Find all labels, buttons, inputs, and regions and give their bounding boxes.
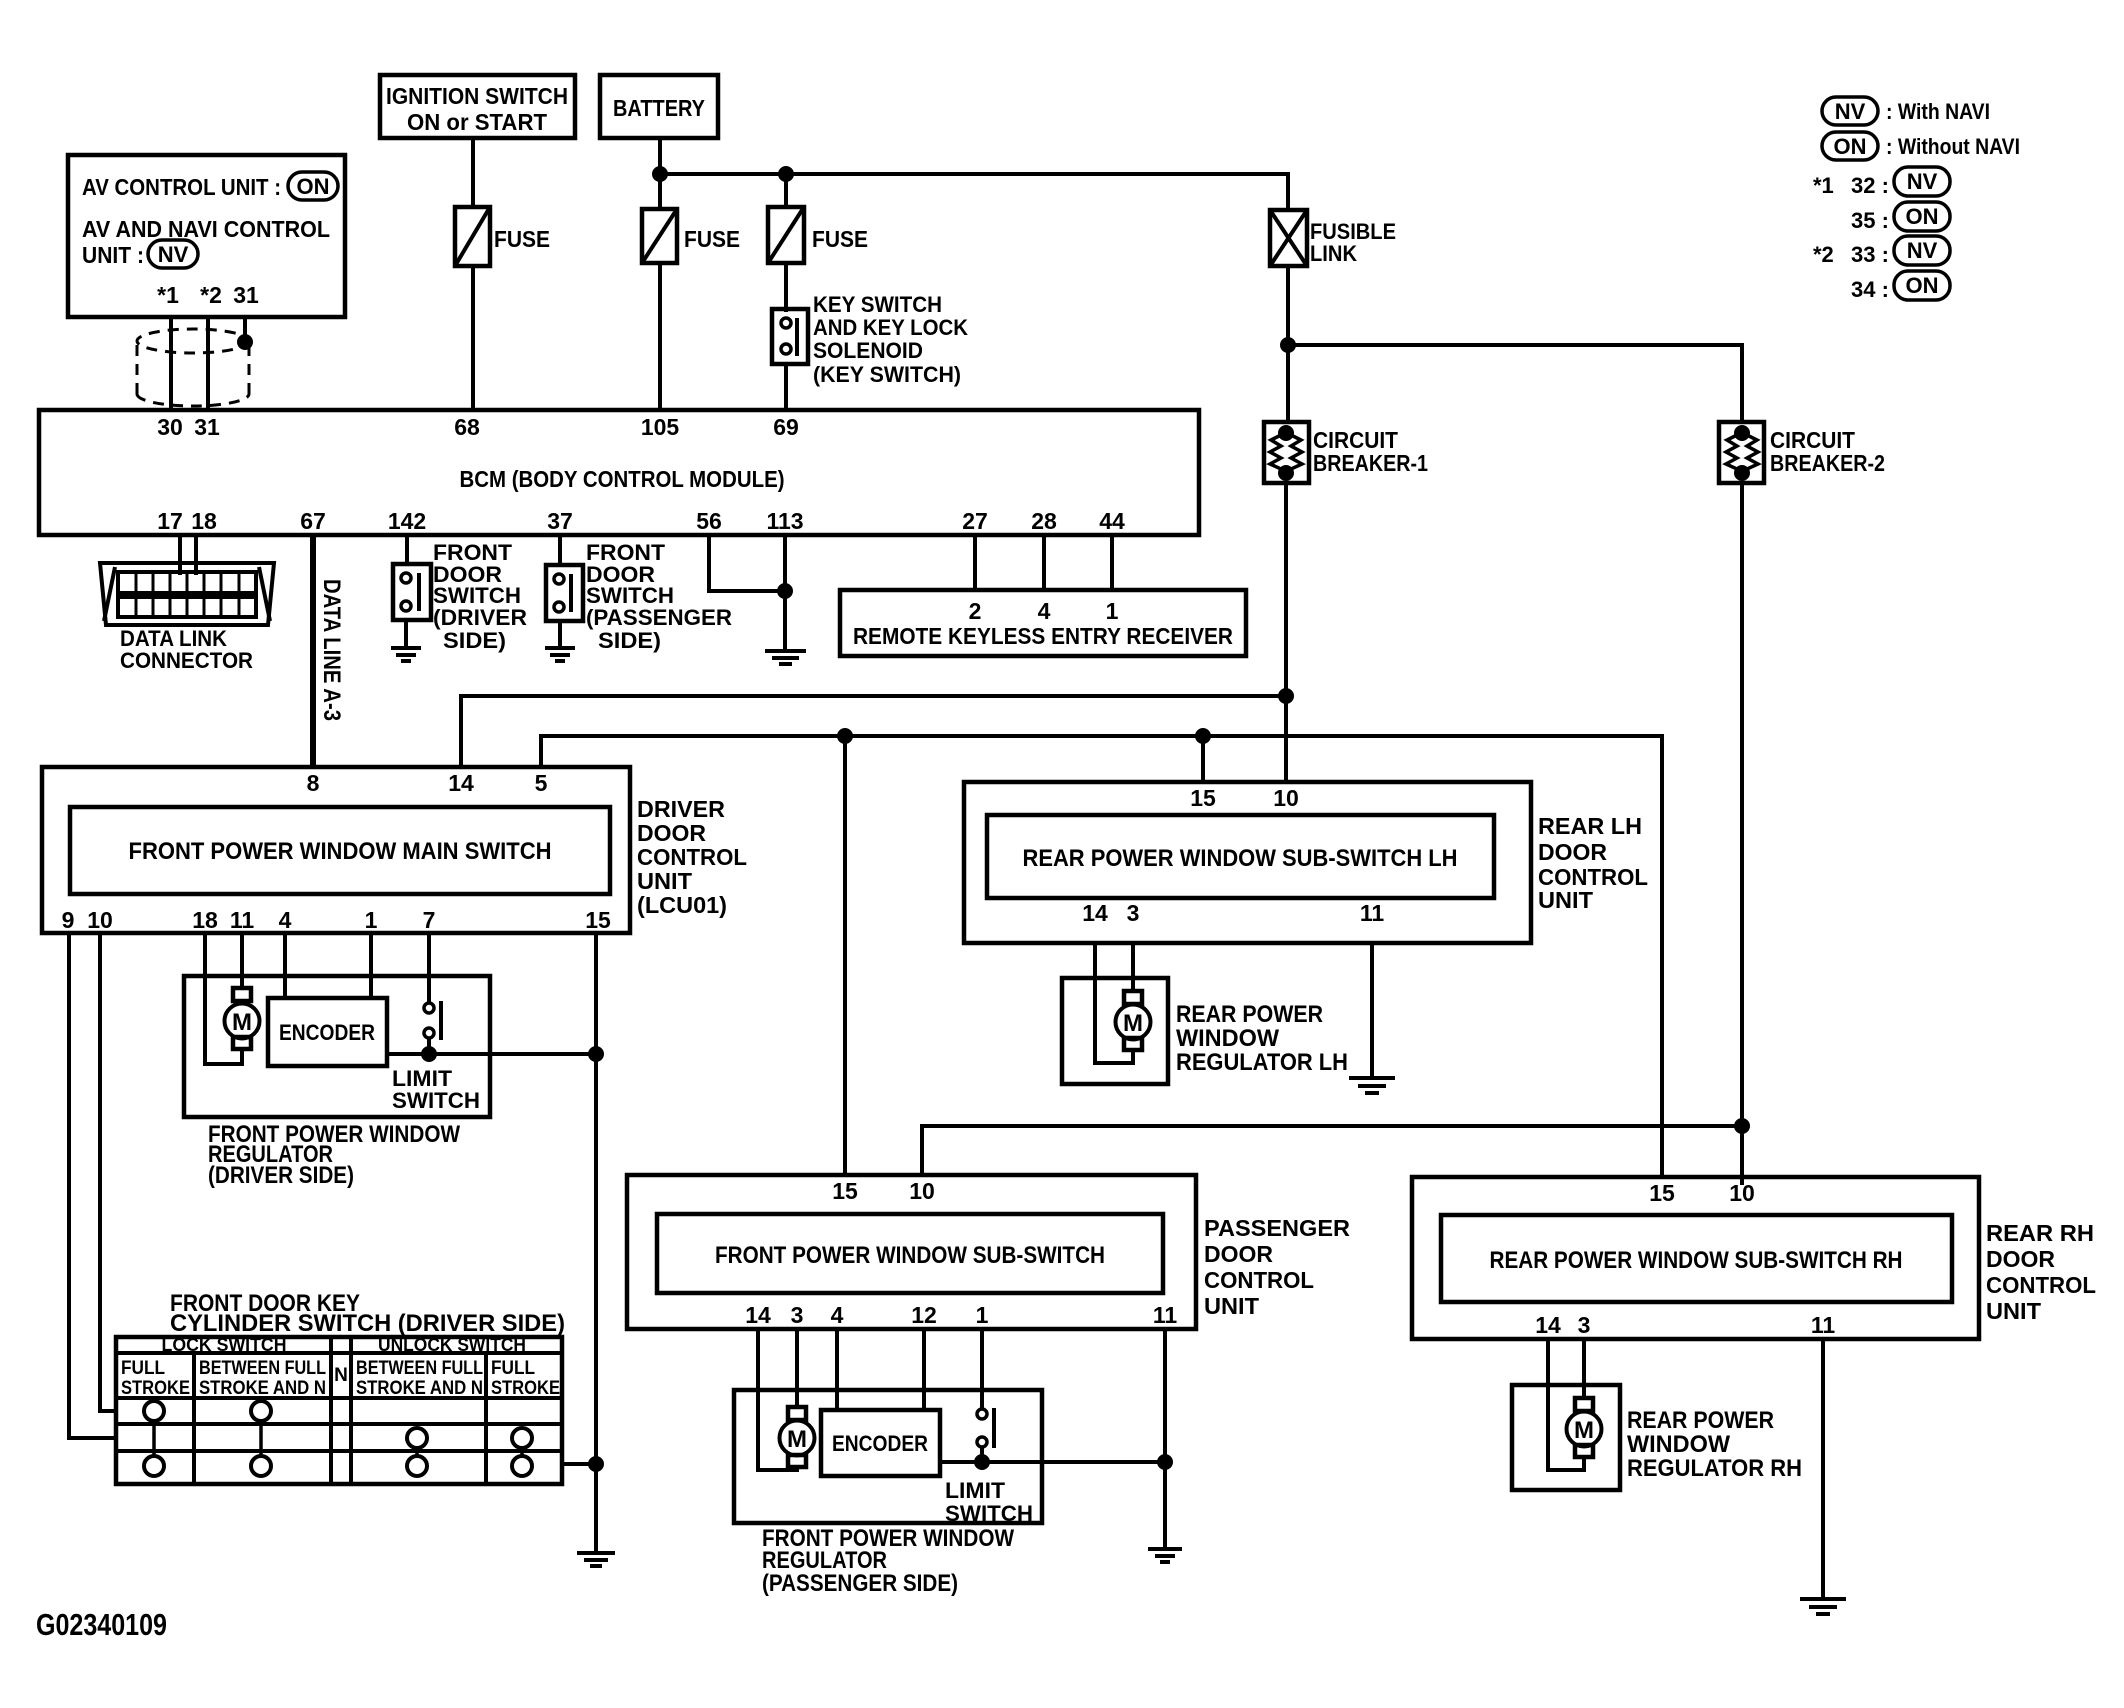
wire ignition to fuse: [471, 138, 475, 207]
svg-text:BETWEEN FULL: BETWEEN FULL: [199, 1358, 326, 1379]
node bus1/CB-1 junction: [1278, 688, 1294, 704]
node limit switch junction: [421, 1046, 437, 1062]
wire to fuse3: [784, 174, 788, 207]
legend 34 ON: [1851, 271, 1950, 302]
wire data line A-3 (BCM 67 to pin 8, thick): [310, 535, 316, 767]
wire AV 31 to shield: [243, 317, 247, 342]
svg-text:(PASSENGER SIDE): (PASSENGER SIDE): [762, 1570, 958, 1597]
wire bus line 3 (passenger 10 to CB-2): [922, 1126, 1742, 1175]
svg-text:BATTERY: BATTERY: [613, 95, 705, 121]
battery box: [600, 75, 718, 138]
wire BCM 44 to receiver pin 1: [1110, 535, 1114, 590]
svg-text:DRIVER: DRIVER: [637, 796, 725, 822]
svg-text:*2: *2: [1813, 242, 1834, 267]
svg-text:ON: ON: [297, 174, 330, 199]
svg-text:AV CONTROL UNIT :: AV CONTROL UNIT :: [82, 174, 281, 200]
ground under passenger door switch: [545, 621, 575, 661]
wire rear LH 14 to motor low side: [1095, 943, 1133, 1063]
data link connector: [100, 563, 274, 673]
svg-text:STROKE: STROKE: [121, 1378, 190, 1399]
svg-text:8: 8: [307, 770, 320, 796]
node on driver 15 line: [588, 1046, 604, 1062]
wire to CB-2: [1288, 345, 1742, 422]
svg-text:31: 31: [194, 414, 220, 440]
wire fuse3 to key switch: [784, 263, 788, 312]
node below fusible link: [1280, 337, 1296, 353]
table contact links: [154, 1421, 522, 1456]
svg-text:FRONT POWER WINDOW MAIN SWITCH: FRONT POWER WINDOW MAIN SWITCH: [129, 838, 552, 865]
svg-text:NV: NV: [1907, 169, 1938, 194]
svg-text:69: 69: [773, 414, 799, 440]
node bus2 rear LH feed: [1195, 728, 1211, 744]
svg-text:FRONT POWER WINDOW SUB-SWITCH: FRONT POWER WINDOW SUB-SWITCH: [715, 1242, 1105, 1269]
wire fuse1 to BCM pin 68: [471, 266, 475, 410]
rear LH door control unit: [964, 782, 1648, 943]
svg-text:105: 105: [641, 414, 680, 440]
fuse F2 (battery): [642, 209, 740, 263]
svg-text:REGULATOR LH: REGULATOR LH: [1176, 1049, 1348, 1076]
wire bus line 2 (driver 5 to rear switches 15): [541, 736, 1662, 1177]
svg-text:(KEY SWITCH): (KEY SWITCH): [813, 362, 961, 387]
fuse F3 (key switch): [768, 207, 868, 263]
wire table to driver 15 line: [562, 1462, 596, 1466]
AV control unit box: [68, 155, 345, 317]
svg-text:14: 14: [745, 1302, 771, 1328]
svg-text:ON: ON: [1906, 204, 1939, 229]
svg-text:FUSE: FUSE: [812, 226, 868, 252]
wire battery down: [658, 138, 662, 209]
svg-text:NV: NV: [158, 242, 189, 267]
svg-text:LINK: LINK: [1310, 241, 1357, 266]
svg-text:3: 3: [1578, 1312, 1591, 1338]
svg-text:NV: NV: [1907, 238, 1938, 263]
svg-text:REAR POWER: REAR POWER: [1176, 1001, 1323, 1028]
svg-text:*2: *2: [200, 282, 222, 308]
svg-text:CYLINDER SWITCH (DRIVER SIDE): CYLINDER SWITCH (DRIVER SIDE): [170, 1310, 565, 1337]
svg-text:1: 1: [365, 907, 378, 933]
motor M (passenger regulator): [780, 1407, 815, 1467]
wire CB-1 down to rear LH pin 10: [1284, 483, 1288, 782]
fusible link: [1270, 210, 1396, 266]
wire driver 7 to limit switch: [427, 933, 431, 1003]
svg-text:M: M: [1123, 1010, 1143, 1037]
svg-text:7: 7: [423, 907, 436, 933]
svg-text:3: 3: [791, 1302, 804, 1328]
svg-text:CONNECTOR: CONNECTOR: [120, 648, 253, 673]
wire BCM 27 to receiver pin 2: [973, 535, 977, 590]
wire BCM 37 to passenger door switch: [558, 535, 562, 565]
svg-text:1: 1: [976, 1302, 989, 1328]
passenger door control unit: [627, 1175, 1350, 1329]
svg-text:113: 113: [766, 508, 803, 534]
svg-text:: Without NAVI: : Without NAVI: [1886, 134, 2020, 159]
svg-text:FUSE: FUSE: [684, 226, 740, 252]
svg-text:28: 28: [1031, 508, 1057, 534]
wire CB-2 down to rear RH pin 10: [1740, 483, 1744, 1185]
table contacts row 1: [144, 1401, 271, 1421]
node bus3/CB-2 junction: [1734, 1118, 1750, 1134]
svg-text:DOOR: DOOR: [1204, 1241, 1273, 1267]
driver door control unit (LCU01): [42, 767, 747, 933]
svg-text:1: 1: [1106, 598, 1119, 624]
svg-text:68: 68: [454, 414, 480, 440]
svg-text:M: M: [1574, 1417, 1594, 1444]
wire BCM 18 to DLC: [194, 535, 198, 575]
rear power window regulator RH: [1512, 1385, 1620, 1490]
wire passenger 3 to motor: [795, 1329, 799, 1407]
wire encoder/limit to passenger 11 line: [940, 1460, 1165, 1464]
rear RH door control unit: [1412, 1177, 2096, 1339]
svg-text:CONTROL: CONTROL: [1986, 1272, 2096, 1298]
svg-text:DOOR: DOOR: [1986, 1246, 2055, 1272]
svg-text:AND KEY LOCK: AND KEY LOCK: [813, 315, 968, 340]
ground driver main: [577, 1553, 615, 1566]
wire rear LH 11 to ground: [1370, 943, 1374, 1078]
svg-text:M: M: [232, 1009, 252, 1036]
svg-text:REGULATOR RH: REGULATOR RH: [1627, 1455, 1802, 1482]
svg-text:10: 10: [1273, 785, 1299, 811]
wire BCM 17 to DLC: [178, 535, 182, 575]
wire passenger 4 to encoder: [835, 1329, 839, 1410]
svg-text:FUSE: FUSE: [494, 226, 550, 252]
wire battery bus to fusible link: [660, 174, 1288, 210]
wire driver 15 to ground: [594, 933, 598, 1553]
BCM (body control module): [39, 410, 1199, 535]
svg-text:14: 14: [1082, 900, 1108, 926]
wire fuse2 to BCM pin 105: [658, 263, 662, 410]
wire to passenger pin 15: [843, 736, 847, 1175]
label rear power window regulator RH: [1627, 1407, 1802, 1482]
circuit breaker CB-1: [1264, 422, 1428, 483]
svg-text:34 :: 34 :: [1851, 277, 1889, 302]
svg-text:REAR RH: REAR RH: [1986, 1220, 2094, 1246]
wire BCM 142 to driver door switch: [405, 535, 409, 564]
node shield junction: [237, 334, 253, 350]
wire key switch to BCM pin 69: [784, 364, 788, 410]
wire driver 9 to lock table row2: [69, 933, 116, 1438]
svg-text:DOOR: DOOR: [1538, 839, 1607, 865]
legend *1 32 NV: [1813, 167, 1950, 198]
limit switch (passenger regulator): [945, 1408, 1033, 1526]
front door switch (passenger side): [546, 540, 732, 653]
svg-text:ENCODER: ENCODER: [279, 1020, 375, 1045]
svg-text:WINDOW: WINDOW: [1627, 1431, 1730, 1458]
svg-text:35 :: 35 :: [1851, 208, 1889, 233]
ground under BCM 113: [765, 651, 806, 664]
node on driver 15 line at table: [588, 1456, 604, 1472]
svg-text:G02340109: G02340109: [36, 1607, 167, 1642]
svg-text:UNIT: UNIT: [1204, 1293, 1259, 1319]
motor M (rear RH regulator): [1567, 1398, 1602, 1457]
svg-text:UNIT :: UNIT :: [82, 242, 144, 268]
svg-text:STROKE: STROKE: [491, 1378, 560, 1399]
svg-text:BCM (BODY CONTROL MODULE): BCM (BODY CONTROL MODULE): [460, 466, 785, 492]
svg-text:11: 11: [230, 907, 255, 933]
svg-text:15: 15: [832, 1178, 858, 1204]
svg-text:FULL: FULL: [491, 1358, 535, 1379]
svg-text:3: 3: [1127, 900, 1140, 926]
wire rear LH 3 to motor: [1131, 943, 1135, 991]
svg-text:ON or START: ON or START: [407, 109, 547, 135]
wire AV *2 to BCM pin 31: [206, 317, 210, 410]
svg-text:BREAKER-2: BREAKER-2: [1770, 450, 1885, 476]
legend *2 33 NV: [1813, 236, 1950, 267]
node bus2 passenger feed: [837, 728, 853, 744]
svg-text:UNIT: UNIT: [637, 868, 692, 894]
wire driver 11 to motor: [240, 933, 244, 989]
svg-text:UNLOCK SWITCH: UNLOCK SWITCH: [378, 1335, 526, 1355]
svg-text:SIDE): SIDE): [443, 628, 506, 653]
motor M (rear LH regulator): [1116, 991, 1151, 1050]
svg-text:UNIT: UNIT: [1986, 1298, 2041, 1324]
key switch and key lock solenoid: [772, 292, 968, 387]
svg-text:12: 12: [911, 1302, 937, 1328]
svg-text:30: 30: [157, 414, 183, 440]
wire to rear LH pin 15: [1201, 736, 1205, 782]
svg-text:: With NAVI: : With NAVI: [1886, 99, 1990, 124]
node 56/113 junction: [777, 583, 793, 599]
front power window regulator (driver side): [184, 976, 490, 1117]
svg-text:KEY SWITCH: KEY SWITCH: [813, 292, 942, 317]
svg-text:NV: NV: [1835, 99, 1866, 124]
svg-text:10: 10: [87, 907, 113, 933]
shield drum (dashed): [137, 329, 249, 406]
svg-text:9: 9: [62, 907, 75, 933]
svg-text:REAR POWER WINDOW SUB-SWITCH L: REAR POWER WINDOW SUB-SWITCH LH: [1023, 845, 1458, 872]
circuit breaker CB-2: [1719, 422, 1885, 483]
svg-text:(DRIVER SIDE): (DRIVER SIDE): [208, 1162, 354, 1189]
wire bus line 1 (driver 14 to CB-1): [461, 696, 1286, 767]
wire driver 4 to encoder: [283, 933, 287, 998]
svg-text:STROKE AND N: STROKE AND N: [199, 1378, 326, 1399]
wire driver 1 to encoder: [369, 933, 373, 998]
encoder (passenger regulator): [821, 1410, 940, 1476]
svg-text:REAR POWER: REAR POWER: [1627, 1407, 1774, 1434]
svg-text:11: 11: [1811, 1312, 1836, 1338]
svg-text:11: 11: [1153, 1302, 1178, 1328]
front power window regulator (passenger side): [734, 1390, 1042, 1523]
front door switch (driver side): [393, 540, 527, 653]
svg-text:10: 10: [909, 1178, 935, 1204]
table contacts row 3: [144, 1456, 532, 1476]
svg-text:4: 4: [831, 1302, 844, 1328]
svg-text:LOCK SWITCH: LOCK SWITCH: [162, 1335, 287, 1355]
svg-text:44: 44: [1099, 508, 1125, 534]
svg-text:IGNITION SWITCH: IGNITION SWITCH: [386, 83, 568, 109]
svg-text:15: 15: [585, 907, 611, 933]
svg-text:15: 15: [1190, 785, 1216, 811]
svg-text:67: 67: [300, 508, 326, 534]
rear power window regulator LH: [1062, 978, 1168, 1084]
svg-text:11: 11: [1360, 900, 1385, 926]
svg-text:STROKE AND N: STROKE AND N: [356, 1378, 483, 1399]
svg-text:10: 10: [1729, 1180, 1755, 1206]
svg-text:15: 15: [1649, 1180, 1675, 1206]
svg-text:REAR LH: REAR LH: [1538, 813, 1642, 839]
svg-text:SWITCH: SWITCH: [945, 1501, 1033, 1526]
wire BCM 113 to ground: [783, 535, 787, 651]
table contacts row 2: [407, 1428, 532, 1448]
wire passenger 14 to motor low side: [758, 1329, 797, 1470]
svg-text:*1: *1: [157, 282, 179, 308]
legend ON pill: [1822, 132, 2020, 160]
node fuse3 junction: [778, 166, 794, 182]
node battery junction: [652, 166, 668, 182]
wire passenger 12 to encoder: [922, 1329, 926, 1410]
svg-text:14: 14: [1535, 1312, 1561, 1338]
svg-text:FULL: FULL: [121, 1358, 165, 1379]
fuse F1 (ignition): [455, 207, 550, 266]
ground under driver door switch: [391, 620, 421, 661]
svg-text:ON: ON: [1906, 273, 1939, 298]
svg-text:5: 5: [535, 770, 548, 796]
svg-text:(DRIVER: (DRIVER: [433, 605, 527, 630]
label rear power window regulator LH: [1176, 1001, 1348, 1076]
svg-text:32 :: 32 :: [1851, 173, 1889, 198]
wire rear RH 11 to ground: [1821, 1339, 1825, 1599]
wire rear RH 3 to motor: [1582, 1339, 1586, 1398]
front door key cylinder switch table: [116, 1335, 562, 1484]
wire passenger 1 to limit switch: [980, 1329, 984, 1409]
svg-text:27: 27: [962, 508, 988, 534]
wire BCM 28 to receiver pin 4: [1042, 535, 1046, 590]
svg-text:N: N: [334, 1365, 348, 1386]
legend NV pill: [1822, 97, 1990, 125]
svg-text:LIMIT: LIMIT: [945, 1478, 1006, 1503]
wire driver 10 to lock table row1: [100, 933, 116, 1411]
svg-text:ENCODER: ENCODER: [832, 1431, 928, 1456]
remote keyless entry receiver: [840, 590, 1246, 656]
wire driver 18 to motor low side: [205, 933, 242, 1064]
svg-text:REAR POWER WINDOW SUB-SWITCH R: REAR POWER WINDOW SUB-SWITCH RH: [1490, 1247, 1903, 1274]
svg-text:DOOR: DOOR: [637, 820, 706, 846]
label front door key cylinder switch: [170, 1290, 565, 1337]
svg-text:CONTROL: CONTROL: [637, 844, 747, 870]
svg-text:*1: *1: [1813, 173, 1834, 198]
legend 35 ON: [1851, 202, 1950, 233]
wire AV *1 to BCM pin 30: [169, 317, 173, 410]
ground rear RH: [1800, 1599, 1846, 1614]
svg-text:DATA LINE A-3: DATA LINE A-3: [318, 579, 345, 721]
wire fusible link down to CB-1: [1286, 266, 1290, 422]
svg-text:AV AND NAVI CONTROL: AV AND NAVI CONTROL: [82, 216, 330, 242]
svg-text:BREAKER-1: BREAKER-1: [1313, 450, 1428, 476]
wire rear RH 14 to motor low side: [1548, 1339, 1584, 1470]
svg-text:14: 14: [448, 770, 474, 796]
svg-text:2: 2: [969, 598, 982, 624]
svg-text:17: 17: [157, 508, 183, 534]
wire encoder/limit to driver 15 line: [387, 1052, 596, 1056]
svg-text:SWITCH: SWITCH: [392, 1088, 480, 1113]
svg-text:56: 56: [696, 508, 722, 534]
svg-text:4: 4: [1038, 598, 1051, 624]
ground rear LH: [1349, 1078, 1395, 1093]
encoder (driver regulator): [268, 998, 387, 1066]
svg-text:UNIT: UNIT: [1538, 887, 1593, 913]
label front power window regulator (driver side): [208, 1121, 460, 1189]
svg-text:SOLENOID: SOLENOID: [813, 338, 923, 363]
limit switch (driver regulator): [392, 1001, 480, 1113]
svg-text:18: 18: [192, 907, 218, 933]
svg-text:(PASSENGER: (PASSENGER: [586, 605, 732, 630]
label front power window regulator (passenger side): [762, 1525, 1014, 1597]
svg-text:4: 4: [279, 907, 292, 933]
svg-text:31: 31: [233, 282, 259, 308]
svg-text:37: 37: [547, 508, 573, 534]
svg-text:142: 142: [388, 508, 426, 534]
svg-text:(LCU01): (LCU01): [637, 892, 727, 918]
svg-text:M: M: [787, 1426, 807, 1453]
svg-text:SIDE): SIDE): [598, 628, 661, 653]
node limit switch junction passenger: [974, 1454, 990, 1470]
ground passenger: [1148, 1549, 1182, 1562]
ignition switch box: [380, 75, 575, 138]
wire passenger 11 to ground: [1163, 1329, 1167, 1549]
motor M (driver regulator): [225, 988, 260, 1049]
svg-text:ON: ON: [1834, 134, 1867, 159]
svg-text:PASSENGER: PASSENGER: [1204, 1215, 1350, 1241]
svg-text:18: 18: [191, 508, 217, 534]
node on passenger 11 line: [1157, 1454, 1173, 1470]
svg-text:WINDOW: WINDOW: [1176, 1025, 1279, 1052]
svg-text:REMOTE KEYLESS ENTRY RECEIVER: REMOTE KEYLESS ENTRY RECEIVER: [853, 623, 1233, 649]
svg-text:33 :: 33 :: [1851, 242, 1889, 267]
wire BCM 56: [709, 535, 785, 591]
svg-text:BETWEEN FULL: BETWEEN FULL: [356, 1358, 483, 1379]
svg-text:CONTROL: CONTROL: [1204, 1267, 1314, 1293]
